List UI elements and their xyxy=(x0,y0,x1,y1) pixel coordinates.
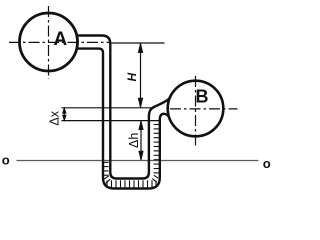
mercury hatch ticks U bottom xyxy=(107,180,156,187)
mercury hatch ticks U bottom corners xyxy=(104,175,158,183)
mercury level right tube (bottom of delta-x) xyxy=(62,120,160,122)
vessel A vertical centerline xyxy=(48,6,50,79)
pipe from A outer wall (top wall, right wall of left tube, inner U bottom, left wall of right tube, outer elbow to B) xyxy=(75,36,172,179)
vessel A horizontal centerline xyxy=(9,41,111,43)
level line at B center extended left (top of delta-x) xyxy=(62,107,155,109)
vessel B horizontal centerline xyxy=(170,108,238,110)
pipe from A inner wall (bottom wall, left wall of left tube, outer U bottom, right wall of right tube, inner elbow to B) xyxy=(75,49,168,189)
mercury hatch ticks left tube xyxy=(103,162,108,175)
vessel B vertical centerline xyxy=(195,76,197,146)
svg-text:Δx: Δx xyxy=(48,110,62,125)
svg-text:o: o xyxy=(2,152,10,167)
vessel B circle xyxy=(168,81,224,137)
svg-text:H: H xyxy=(125,73,139,82)
mercury hatch ticks right tube xyxy=(154,125,159,173)
dimension H line with arrows xyxy=(138,43,142,108)
dimension delta-x line with arrows xyxy=(63,108,66,121)
svg-text:B: B xyxy=(196,87,209,107)
vessel A circle xyxy=(20,13,78,71)
H reference line at A level xyxy=(112,42,165,44)
datum line o-o xyxy=(17,160,259,162)
svg-text:A: A xyxy=(54,29,68,50)
svg-text:o: o xyxy=(263,156,271,171)
dimension delta-h line with arrows xyxy=(139,121,143,161)
svg-text:Δh: Δh xyxy=(127,133,141,148)
